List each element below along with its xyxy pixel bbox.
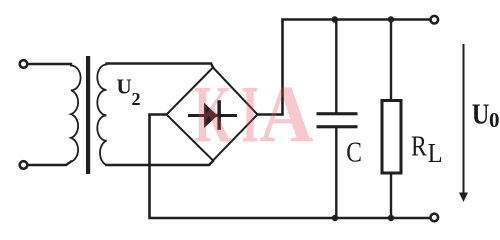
junction dot top rail resistor xyxy=(388,16,394,22)
svg-text:R: R xyxy=(411,129,427,162)
svg-text:0: 0 xyxy=(489,108,500,132)
capacitor branch wire upper xyxy=(335,20,337,113)
svg-text:U: U xyxy=(472,99,490,130)
transformer secondary winding xyxy=(97,64,106,166)
svg-text:C: C xyxy=(346,135,362,168)
svg-text:K: K xyxy=(194,68,231,160)
svg-text:L: L xyxy=(428,138,443,168)
capacitor top plate xyxy=(317,112,358,115)
terminal bottom-left xyxy=(20,161,28,169)
wire primary bottom xyxy=(28,162,71,166)
resistor branch wire lower xyxy=(390,173,392,218)
resistor branch wire upper xyxy=(390,20,392,101)
transformer primary winding xyxy=(71,64,81,162)
wire bridge left vertex to bottom rail xyxy=(150,115,431,219)
diode D1 triangle xyxy=(204,103,218,128)
output arrow head xyxy=(459,193,468,203)
wire secondary bottom to bridge xyxy=(107,161,214,165)
svg-text:2: 2 xyxy=(132,89,141,109)
diode D1 anode/cathode line xyxy=(188,114,237,117)
junction dot bottom rail resistor xyxy=(388,215,394,221)
svg-text:U: U xyxy=(117,75,132,99)
watermark KIA xyxy=(194,68,314,160)
bridge rectifier diamond xyxy=(167,68,258,161)
junction dot bottom rail capacitor xyxy=(332,215,338,221)
junction dot top rail capacitor xyxy=(332,16,338,22)
capacitor bottom plate xyxy=(317,125,358,128)
terminal top-right xyxy=(431,16,439,24)
svg-text:I: I xyxy=(241,70,259,160)
svg-text:A: A xyxy=(259,70,314,161)
capacitor branch wire lower xyxy=(335,128,337,218)
wire bridge right vertex up to top rail xyxy=(258,20,431,115)
transformer core bar xyxy=(86,56,90,174)
wire primary top xyxy=(28,63,71,65)
wire secondary top to bridge xyxy=(107,64,214,68)
terminal bottom-right xyxy=(431,214,439,222)
resistor RL body xyxy=(382,101,401,174)
output arrow line U0 xyxy=(463,45,465,196)
diode D1 cathode bar xyxy=(217,100,221,130)
terminal top-left xyxy=(20,60,28,68)
